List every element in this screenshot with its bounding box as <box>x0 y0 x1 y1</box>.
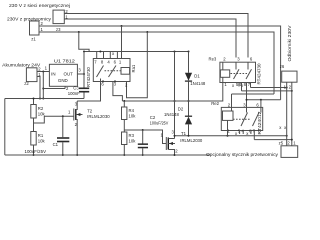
junction dot W3 x188.5 <box>188 135 190 137</box>
wire: R1 bottom to GND bus <box>33 145 35 155</box>
wire: R2-R1 link <box>33 118 35 132</box>
wire: z6 pin2 down to z5 <box>291 82 293 146</box>
svg-text:OUT: OUT <box>64 71 74 76</box>
junction dot T2 source at bus <box>76 154 78 156</box>
svg-text:RT424730: RT424730 <box>86 67 91 87</box>
Ra1 dashed actuator line <box>105 70 122 72</box>
junction dot bus y32 branch x78.8 <box>78 31 80 33</box>
Re2 contact blade 1 <box>241 113 248 127</box>
diode D1 body <box>185 73 192 81</box>
Re2 pin8 stub <box>250 131 252 135</box>
Re3 coil <box>220 70 229 77</box>
connector z1 (inverter input) box <box>30 21 40 35</box>
capacitor C1 bottom plate <box>57 141 69 143</box>
svg-text:R2: R2 <box>38 106 44 111</box>
capacitor C3 bottom plate <box>79 91 89 93</box>
Re2 dashed actuator <box>233 118 251 120</box>
svg-text:IRLML2030: IRLML2030 <box>87 114 110 119</box>
junction dot R2 top <box>33 98 35 100</box>
wire: z3 branch down to node W1 <box>79 32 89 52</box>
junction dot C2 bottom <box>142 154 144 156</box>
junction dot C1 bottom <box>62 154 64 156</box>
wire: divider branch to T2 gate <box>34 116 74 123</box>
diode D2 cathode bar <box>185 115 192 117</box>
wire: T2 drain net to Ra1 pin 6 <box>77 79 100 102</box>
wire: z2 pin1 down to rail y98.5 <box>37 77 40 99</box>
resistor R2 <box>31 105 36 119</box>
Re3 contact blade 1 <box>234 69 240 79</box>
svg-text:230 V z sieci energetycznej: 230 V z sieci energetycznej <box>9 3 70 8</box>
Re3 pin5 stub <box>238 83 240 87</box>
junction dot row1 z6 pin1 <box>286 87 288 89</box>
relay Re3 box <box>220 62 256 82</box>
svg-text:10k: 10k <box>129 139 137 144</box>
T1 source lead <box>168 150 174 156</box>
wire: node W2 horizontal y101 <box>122 77 222 101</box>
junction dot T1 source at bus <box>174 154 176 156</box>
transistor T1 gate bar <box>165 137 167 150</box>
Ra1 coil <box>121 68 130 75</box>
svg-text:z2: z2 <box>24 81 29 86</box>
wire: C2 bottom to GND bus <box>142 148 144 155</box>
Ra1 contact blade 2 <box>109 66 117 78</box>
wire: node W3 horizontal y135.8 <box>175 135 287 137</box>
wire: mains L bus (y13.5) to Re3 pin6 <box>64 14 248 58</box>
Re2 contact stub 3 <box>246 107 248 112</box>
wire: D2 top from W2 <box>188 101 190 116</box>
junction dot C2 top <box>142 129 144 131</box>
svg-text:D1: D1 <box>194 74 200 79</box>
connector z6 (Odbiorniki 230V) box <box>282 71 297 82</box>
svg-text:IN: IN <box>51 71 55 76</box>
svg-text:RT424730: RT424730 <box>256 63 261 85</box>
junction dot C1 top <box>62 115 64 117</box>
junction dot (40,98.5) <box>39 98 41 100</box>
svg-text:1N4148: 1N4148 <box>190 81 206 86</box>
wire: R2 top stub <box>33 99 35 105</box>
svg-text:Odbiorniki 230V: Odbiorniki 230V <box>287 25 292 61</box>
junction dot W1 x174.5 <box>174 51 176 53</box>
T2 arrow <box>77 113 81 116</box>
svg-text:Akumulatory 24V: Akumulatory 24V <box>2 63 41 68</box>
svg-text:C3: C3 <box>73 86 79 91</box>
wire: U1 GND pin stub <box>64 86 66 88</box>
T2 body lead <box>76 114 83 116</box>
T2 source lead <box>76 120 77 156</box>
Re2 contact blade 2 <box>253 113 260 127</box>
svg-text:10k: 10k <box>38 112 46 117</box>
T2 drain lead <box>76 101 77 110</box>
junction dot row2 z6 pin2 <box>291 90 293 92</box>
Re3 coil stub from pin2 <box>222 62 224 70</box>
capacitor C3 top plate <box>79 88 89 90</box>
wire: divider branch to T1 gate <box>124 130 166 144</box>
resistor R4 <box>122 107 127 120</box>
Re2 contact stub 6 <box>260 107 262 112</box>
Re2 coil link from pin2 <box>231 107 233 111</box>
wire row4 y99.8: Re2 pin3 column to bus y26 <box>247 99 281 101</box>
wire: rail y98.5 from left rail to C3 bottom <box>5 98 84 100</box>
resistor R3 <box>122 132 127 145</box>
junction dot R1 bottom <box>33 154 35 156</box>
svg-text:IRLML2030: IRLML2030 <box>180 138 203 143</box>
svg-text:z1: z1 <box>31 37 36 42</box>
diode D2 body <box>185 117 192 125</box>
svg-text:R1: R1 <box>38 133 44 138</box>
svg-text:C1: C1 <box>53 142 59 147</box>
wire: R4-R3 link <box>123 120 125 133</box>
wire: branch y26 bus down to relay Ra1 top <box>121 26 123 59</box>
svg-text:T2: T2 <box>87 109 93 114</box>
T1 body lead <box>168 143 175 145</box>
junction dot bus y32 branch x147.3 <box>146 31 148 33</box>
Re3 pin7 stub to row1 <box>250 83 252 88</box>
svg-text:Re2: Re2 <box>211 101 219 106</box>
junction dot W2/R4 <box>123 100 125 102</box>
wire: Re2 pin6 drop <box>260 100 262 108</box>
wire: U1 OUT pin to node W1 <box>77 73 84 75</box>
capacitor C2 bottom plate <box>138 147 148 149</box>
junction dot W2 x174.5 <box>174 100 176 102</box>
junction dot bus y26 branch <box>121 25 123 27</box>
capacitor C2 top plate <box>138 143 148 145</box>
wire: C1 bottom to GND bus <box>62 142 64 155</box>
junction dot on W1 at x101 <box>99 51 101 53</box>
junction dot R3 bottom <box>123 154 125 156</box>
wire: z3 branch down to Ra1 pin2 jog <box>127 32 148 98</box>
junction dot W1 x188.5 <box>188 51 190 53</box>
wire: D2 bottom to W3 <box>188 124 190 135</box>
connector z5 box <box>281 146 298 158</box>
wire: left rail down <box>4 99 6 156</box>
junction dot W3 x174.5 <box>174 135 176 137</box>
wire: Re2 pin2 drop <box>231 94 233 107</box>
junction dot z2 branch at rail <box>42 98 44 100</box>
relay Ra1 box <box>93 59 130 82</box>
svg-text:100uF/25V: 100uF/25V <box>150 120 169 125</box>
junction dot W2 x188.5 <box>188 100 190 102</box>
svg-text:D2: D2 <box>178 106 184 111</box>
transistor T1 channel bar <box>167 138 169 150</box>
wire: T1 drain vertical from W1 through W2 to T1 <box>174 52 176 139</box>
wire row3 y94: Re2 pin2 column to bus z3 <box>232 93 275 95</box>
T1 arrow <box>169 142 173 145</box>
wire: GND wire y88.5 to C3 <box>43 88 65 90</box>
junction dot row4 at Re2 pin6 drop <box>260 99 262 101</box>
wire: z6 pin1 down to z5 <box>286 82 288 146</box>
connector z2 (battery) box <box>26 68 37 82</box>
svg-text:R3: R3 <box>129 133 135 138</box>
transistor T2 gate bar <box>73 109 75 121</box>
wire: Ra1 pin3 jog down to W2 <box>113 82 123 102</box>
wire: C3 bottom to rail y98.5 <box>83 74 85 88</box>
Ra1 top pin stubs <box>96 52 98 59</box>
wire: net z3 bus (y32) to Re2 pin6 <box>39 32 274 94</box>
Re3 contact blade 2 <box>246 69 252 79</box>
svg-text:C2: C2 <box>150 115 156 120</box>
regulator U1 7812 box <box>49 64 77 86</box>
svg-text:Ra1: Ra1 <box>131 64 136 72</box>
Re2 pin7 stub to wire C <box>253 131 255 140</box>
capacitor C2 top stub <box>142 130 144 144</box>
diode D1 top wire from W1 <box>188 52 190 73</box>
junction dot z2 pin2 branch <box>42 71 44 73</box>
svg-text:100uF/25V: 100uF/25V <box>25 149 47 154</box>
wire: D1 bottom to W2 <box>188 81 190 101</box>
junction dot U1 OUT <box>83 73 85 75</box>
Re3 contact stub 6 <box>247 62 249 69</box>
Re3 contact stub 3 <box>235 62 237 69</box>
wire: inverter bus (y26) to node at y90 <box>39 26 281 100</box>
wire: OUT column up to W1 <box>83 52 85 75</box>
Re3 pin8 stub down to Re2 pin3 <box>246 83 248 108</box>
relay Re2 box <box>221 107 262 130</box>
svg-text:z5: z5 <box>279 141 284 146</box>
Ra1 contact blade 1 <box>97 66 104 78</box>
junction dot wireC z5 pin1 <box>291 139 293 141</box>
junction dot at (43.5,88.5) <box>42 88 44 90</box>
Re3 pin4 stub to row2 <box>241 83 243 91</box>
svg-text:GND: GND <box>58 78 68 83</box>
GND bus bottom <box>5 154 210 156</box>
svg-text:Opcjonalny stycznik przetworni: Opcjonalny stycznik przetwornicy <box>206 152 279 157</box>
svg-text:z6: z6 <box>280 64 285 69</box>
Re3 dashed actuator <box>231 73 248 75</box>
wire: branch down to GND wire y88.5 <box>42 72 44 99</box>
wire: mains N bus (y19) to Re3 pin3 <box>64 19 236 58</box>
Re2 coil <box>223 111 234 120</box>
svg-text:z3: z3 <box>56 27 61 32</box>
Re2 coil bottom to W3 <box>227 120 229 135</box>
svg-text:Re3: Re3 <box>209 57 217 62</box>
svg-text:U1 7812: U1 7812 <box>54 59 76 64</box>
connector X4 (mains input) box <box>53 10 64 24</box>
svg-text:100nF: 100nF <box>68 91 80 96</box>
capacitor C1 top stub <box>62 116 64 137</box>
wire: C3 bottom to rail <box>83 93 85 99</box>
wire: z2 pin2 to U1 IN <box>37 71 49 73</box>
wire: R4 top stub to W2 <box>123 101 125 107</box>
wire row1 y87.5: Re3 pin7 to z6 pin1 <box>251 87 287 89</box>
T1 drain lead <box>168 138 174 140</box>
wire row2 y90.9: Re3 pin4 to z6 pin2 <box>242 90 292 92</box>
transistor T2 channel bar <box>75 109 77 120</box>
wire: R3 bottom to GND bus <box>123 145 125 156</box>
junction dot row4/pin3 column <box>246 99 248 101</box>
junction dot W3 right end <box>286 135 288 137</box>
svg-text:R4: R4 <box>129 108 135 113</box>
junction dot W1/U1 out <box>83 51 85 53</box>
Re2 pin5 stub <box>239 131 241 135</box>
wire: node W1 horizontal (y51.2) above Ra1 <box>84 51 189 53</box>
svg-text:10k: 10k <box>38 138 46 143</box>
wire C: y139.6 to z5 pin1 <box>254 139 291 141</box>
svg-text:10k: 10k <box>129 114 137 119</box>
capacitor C1 top plate <box>57 137 69 139</box>
resistor R1 <box>31 132 36 146</box>
Re2 pin4 stub <box>242 131 244 135</box>
junction dot W3 Re2 coil <box>227 135 229 137</box>
diode D1 cathode bar <box>185 80 192 82</box>
svg-text:1N4148: 1N4148 <box>164 112 180 117</box>
